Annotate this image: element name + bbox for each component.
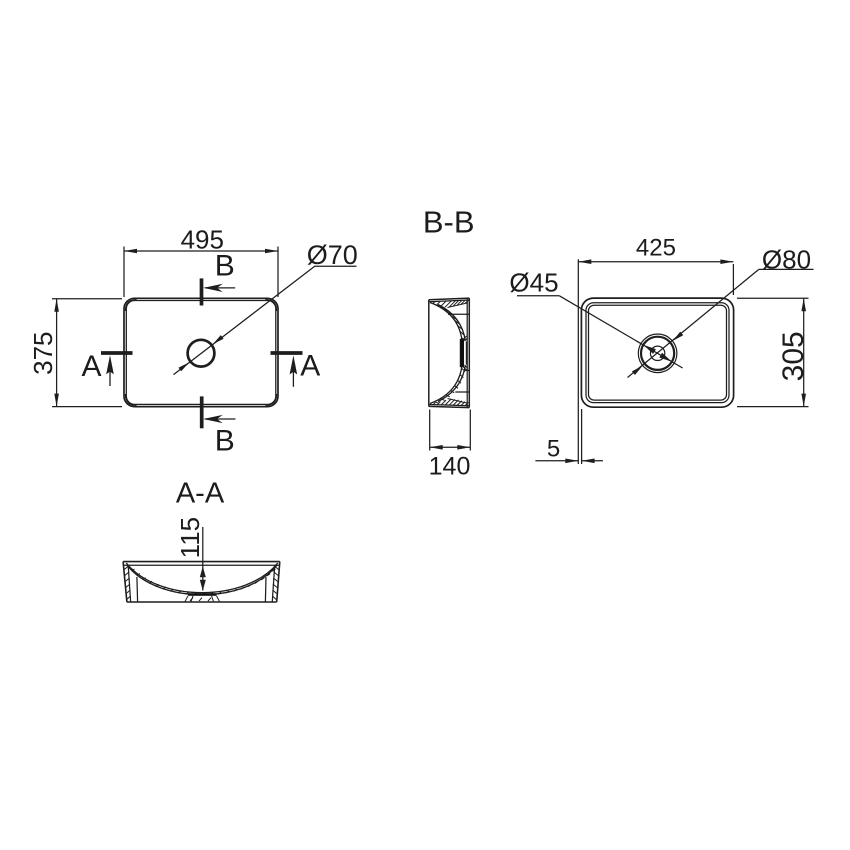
plan outer contour (124, 298, 278, 406)
dim 425 (578, 259, 733, 464)
svg-text:A-A: A-A (176, 478, 225, 510)
BB drain side lines (463, 336, 468, 370)
dim 5 (535, 409, 603, 464)
AA drain bar (188, 593, 217, 596)
AA bowl curves (126, 563, 277, 595)
BB bowl curves (430, 303, 465, 404)
dia70 leader line (174, 266, 357, 374)
dim 495 (124, 247, 278, 298)
svg-text:425: 425 (636, 235, 676, 262)
BB horizontal line 2 (465, 369, 470, 371)
bottom view rim contours (586, 303, 729, 403)
bottom view outer contour (581, 298, 733, 407)
BB right edge (468, 298, 470, 408)
AA drain trapezoid (185, 596, 220, 602)
section marker B bottom (202, 396, 236, 428)
dim 140 (430, 410, 471, 451)
section marker A right (271, 353, 303, 387)
section marker B top (202, 278, 236, 305)
plan corner accent arcs (125, 300, 276, 406)
BB hatching (433, 300, 469, 406)
svg-text:Ø45: Ø45 (509, 268, 558, 298)
dia70 arrowheads (178, 335, 223, 371)
plan inner rim contour (126, 301, 275, 405)
AA right edge (277, 562, 280, 602)
drain circles (638, 334, 677, 373)
AA hatching (124, 566, 278, 601)
svg-text:A: A (81, 350, 101, 383)
svg-text:B: B (215, 425, 235, 458)
dia80 leader (628, 269, 759, 377)
BB drain dark bar (460, 339, 464, 367)
BB bottom edge (429, 406, 470, 407)
BB rim underside lines (448, 303, 468, 403)
BB horizontal line 1 (448, 313, 469, 315)
svg-text:5: 5 (547, 436, 560, 463)
BB right inner line (466, 299, 468, 407)
BB horizontal line 3 (455, 391, 469, 393)
dim 305 (737, 298, 809, 406)
section marker A left (101, 353, 133, 386)
AA side wall lines (128, 565, 275, 601)
AA inner rim line (124, 564, 279, 566)
AA top edge (123, 561, 280, 563)
svg-text:375: 375 (28, 332, 58, 375)
AA bottom edge (127, 601, 277, 603)
dim 115 (202, 527, 204, 591)
svg-text:Ø70: Ø70 (307, 240, 358, 270)
BB left edge (428, 300, 430, 407)
svg-text:Ø80: Ø80 (762, 245, 811, 275)
svg-text:B: B (215, 250, 235, 283)
drain circle plan (188, 340, 215, 367)
BB top inner line (429, 300, 470, 302)
AA left edge (123, 562, 127, 602)
dim 375 (52, 299, 122, 407)
dia45 leader (559, 296, 682, 368)
svg-text:B-B: B-B (423, 205, 475, 240)
svg-text:A: A (300, 350, 320, 383)
BB bottom inner line (429, 405, 470, 406)
svg-text:140: 140 (429, 453, 471, 481)
svg-text:115: 115 (175, 517, 205, 558)
svg-text:305: 305 (777, 331, 810, 381)
BB top edge (429, 298, 470, 300)
